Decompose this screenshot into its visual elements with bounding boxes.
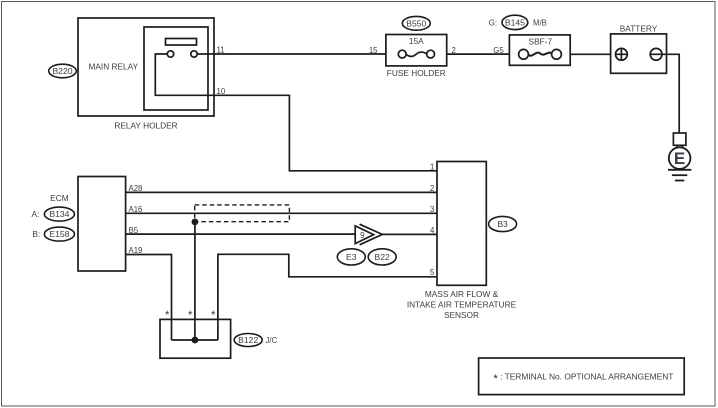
svg-text:RELAY HOLDER: RELAY HOLDER	[114, 121, 177, 131]
svg-text:A19: A19	[129, 246, 143, 255]
svg-text:15A: 15A	[409, 36, 424, 46]
svg-text:B:: B:	[32, 229, 40, 239]
svg-text:15: 15	[369, 46, 378, 55]
svg-text:*: *	[165, 310, 170, 322]
svg-text:SBF-7: SBF-7	[529, 36, 553, 46]
svg-text:2: 2	[452, 46, 456, 55]
svg-text:A16: A16	[129, 205, 143, 214]
svg-text:B3: B3	[497, 219, 508, 229]
svg-text:A28: A28	[129, 184, 143, 193]
svg-text:*: *	[188, 310, 193, 322]
svg-text:M/B: M/B	[533, 19, 547, 28]
svg-text:9: 9	[360, 231, 365, 240]
svg-text:11: 11	[217, 46, 225, 55]
svg-text:B550: B550	[406, 18, 426, 28]
svg-text:B145: B145	[505, 17, 525, 27]
svg-text:4: 4	[430, 226, 435, 235]
svg-text:1: 1	[430, 163, 434, 172]
svg-text:B134: B134	[49, 209, 69, 219]
svg-text:MASS AIR FLOW &: MASS AIR FLOW &	[425, 289, 499, 299]
svg-text:5: 5	[430, 268, 435, 277]
svg-text:MAIN RELAY: MAIN RELAY	[88, 62, 138, 72]
svg-text:E: E	[674, 149, 685, 168]
svg-text:B122: B122	[238, 335, 258, 345]
svg-text:B5: B5	[129, 226, 139, 235]
svg-text:2: 2	[430, 184, 434, 193]
svg-text:BATTERY: BATTERY	[620, 23, 658, 33]
svg-text:G:: G:	[489, 19, 497, 28]
svg-text:3: 3	[430, 205, 434, 214]
svg-text:FUSE HOLDER: FUSE HOLDER	[387, 68, 446, 78]
svg-text:G5: G5	[493, 46, 504, 55]
svg-text:A:: A:	[32, 209, 40, 219]
svg-text:SENSOR: SENSOR	[444, 310, 479, 320]
svg-text:ECM: ECM	[50, 193, 69, 203]
svg-text:INTAKE AIR TEMPERATURE: INTAKE AIR TEMPERATURE	[407, 299, 517, 309]
svg-text:B220: B220	[52, 66, 72, 76]
svg-text:B22: B22	[375, 252, 391, 262]
svg-text:*: *	[211, 310, 216, 322]
svg-text:E3: E3	[346, 252, 357, 262]
svg-text:10: 10	[217, 87, 226, 96]
svg-text:E158: E158	[49, 229, 69, 239]
svg-text:J/C: J/C	[266, 336, 278, 345]
